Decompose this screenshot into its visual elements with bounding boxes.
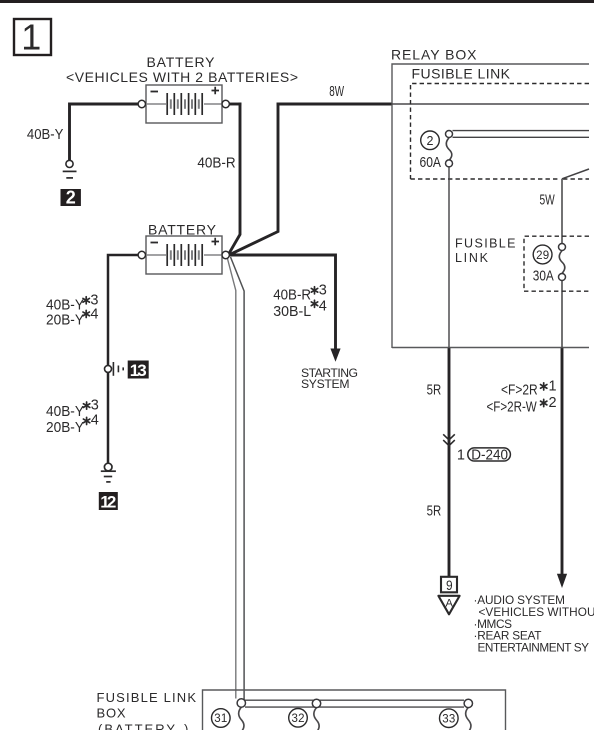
svg-text:BATTERY: BATTERY: [148, 222, 217, 238]
svg-text:FUSIBLE LINK: FUSIBLE LINK: [412, 65, 511, 81]
svg-text:SYSTEM: SYSTEM: [301, 377, 350, 391]
svg-text:40B-R: 40B-R: [197, 154, 235, 171]
svg-text:13: 13: [130, 361, 147, 380]
svg-text:FUSIBLE: FUSIBLE: [455, 237, 516, 251]
svg-text:LINK: LINK: [455, 251, 489, 265]
svg-text:20B-Y: 20B-Y: [46, 419, 85, 435]
svg-text:<F>2R-W: <F>2R-W: [487, 398, 538, 415]
svg-text:40B-R: 40B-R: [273, 286, 311, 303]
svg-text:<F>2R: <F>2R: [501, 381, 538, 397]
svg-text:1: 1: [21, 16, 41, 57]
svg-text:4: 4: [319, 298, 327, 314]
svg-text:31: 31: [214, 713, 227, 725]
svg-text:<VEHICLES WITH 2 BATTERIES>: <VEHICLES WITH 2 BATTERIES>: [66, 69, 298, 85]
svg-text:(BATTERY: (BATTERY: [98, 722, 175, 730]
svg-text:1: 1: [457, 448, 465, 464]
svg-text:2: 2: [66, 188, 76, 208]
svg-text:A: A: [446, 598, 454, 610]
svg-text:40B-Y: 40B-Y: [46, 296, 85, 312]
svg-text:FUSIBLE LINK: FUSIBLE LINK: [97, 690, 197, 705]
svg-text:30A: 30A: [533, 267, 554, 283]
svg-text:1: 1: [549, 378, 557, 394]
svg-text:3: 3: [91, 397, 99, 413]
svg-text:5R: 5R: [427, 502, 442, 519]
svg-text:BATTERY: BATTERY: [147, 54, 216, 70]
svg-text:2: 2: [549, 395, 557, 411]
svg-text:5R: 5R: [427, 381, 442, 398]
svg-text:BOX: BOX: [97, 706, 126, 721]
svg-text:ENTERTAINMENT SY: ENTERTAINMENT SY: [478, 641, 590, 655]
svg-text:8W: 8W: [329, 83, 344, 99]
svg-text:): ): [184, 722, 188, 730]
svg-text:60A: 60A: [420, 154, 442, 170]
svg-text:32: 32: [292, 713, 305, 725]
svg-text:29: 29: [536, 250, 549, 262]
svg-text:20B-Y: 20B-Y: [46, 311, 85, 327]
svg-text:4: 4: [90, 306, 98, 322]
svg-text:30B-L: 30B-L: [273, 304, 311, 320]
svg-text:D-240: D-240: [471, 446, 508, 463]
svg-text:2: 2: [427, 134, 434, 148]
svg-text:40B-Y: 40B-Y: [46, 403, 85, 419]
svg-text:RELAY BOX: RELAY BOX: [391, 46, 477, 62]
svg-text:9: 9: [446, 577, 453, 593]
svg-text:4: 4: [91, 413, 99, 429]
svg-text:33: 33: [442, 713, 455, 725]
svg-text:3: 3: [319, 283, 327, 299]
svg-text:5W: 5W: [540, 192, 555, 208]
svg-text:12: 12: [100, 492, 116, 511]
svg-text:40B-Y: 40B-Y: [27, 125, 64, 142]
